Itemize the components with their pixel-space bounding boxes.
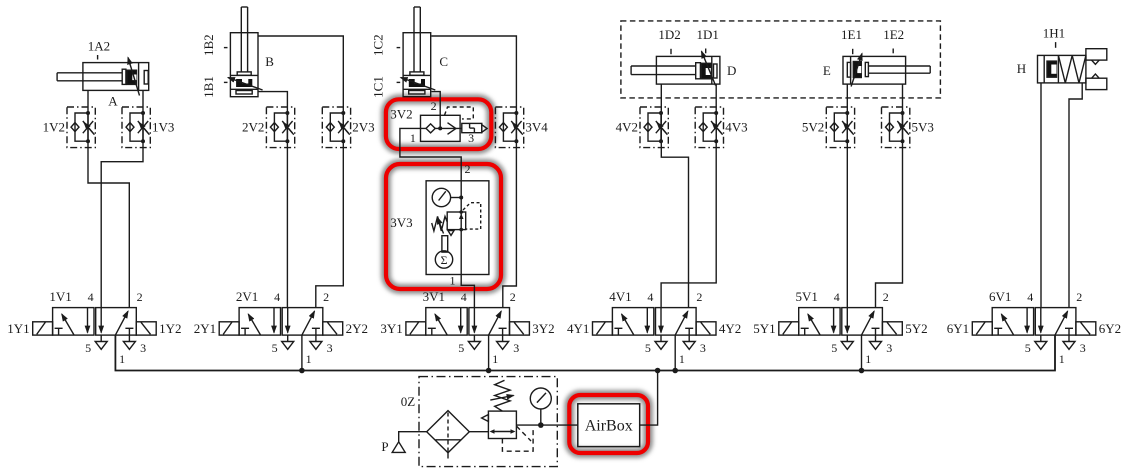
junction dot valve 3 — [486, 368, 492, 374]
svg-text:1C1: 1C1 — [371, 76, 386, 98]
flow control valve 2V3 — [322, 107, 350, 148]
flow control valve 1V2 — [67, 107, 95, 148]
svg-text:H: H — [1017, 61, 1026, 76]
sensor tick 1C1 — [397, 81, 401, 83]
valve 1V1 — [33, 308, 157, 371]
svg-text:6Y2: 6Y2 — [1099, 321, 1121, 336]
svg-text:3: 3 — [140, 341, 146, 355]
cylinder D barrel — [656, 56, 720, 84]
cylinder B piston — [237, 72, 251, 75]
pressure regulator body — [488, 411, 516, 438]
svg-text:4Y1: 4Y1 — [567, 321, 589, 336]
sensor tick 1H1 — [1055, 42, 1057, 48]
wire group3 top: cylinder C to 3V4 to port 2 of 3V1 — [431, 36, 516, 308]
cylinder A piston — [122, 69, 126, 84]
sensor tick 1E2 — [892, 49, 894, 54]
air service unit 0Z — [392, 377, 557, 467]
svg-text:2: 2 — [696, 290, 702, 304]
svg-text:5Y2: 5Y2 — [905, 321, 927, 336]
red highlight around 3V3 — [386, 164, 501, 289]
flow control valve 5V3 — [882, 107, 910, 148]
labels valve 5V1 — [753, 289, 927, 366]
flow control valve 4V3 — [695, 107, 723, 148]
svg-text:1V2: 1V2 — [43, 120, 65, 135]
cylinder A magnet — [127, 70, 137, 84]
cylinder A cushioning adjust arrow — [128, 58, 140, 96]
svg-text:4V3: 4V3 — [725, 120, 747, 135]
svg-text:A: A — [108, 94, 118, 109]
cylinder C piston — [410, 72, 424, 75]
valve 2V1 — [219, 308, 343, 371]
cylinder C barrel — [403, 33, 431, 97]
svg-text:1C2: 1C2 — [371, 34, 386, 56]
wire group1 left: cylinder A cap port to port 2 of 1V1 — [88, 90, 129, 307]
3V3 stem — [442, 236, 448, 252]
svg-text:3: 3 — [513, 341, 519, 355]
regulator relief vent — [482, 415, 489, 422]
svg-text:6Y1: 6Y1 — [947, 321, 969, 336]
svg-text:1: 1 — [450, 274, 456, 288]
3V2 check valve diamond — [426, 124, 435, 133]
svg-text:5Y1: 5Y1 — [753, 321, 775, 336]
3V3 regulator valve body — [447, 212, 466, 230]
sensor tick 1C2 — [397, 47, 401, 49]
svg-text:4: 4 — [88, 290, 94, 304]
wire group3: cylinder C bottom port to 3V2 port 2 — [431, 92, 440, 116]
3V3 pressure gauge — [432, 188, 450, 206]
flow control valve 4V2 — [640, 107, 668, 148]
cylinder D — [631, 49, 720, 86]
3V2 pilot dashed line — [445, 107, 474, 119]
sensor tick 1D2 — [670, 49, 672, 54]
pressure gauge 0Z — [530, 388, 551, 409]
cylinder B cushioning adjust arrow — [228, 78, 263, 91]
cylinder E magnet — [853, 62, 861, 78]
cylinder E piston rod — [868, 65, 930, 67]
svg-text:1H1: 1H1 — [1043, 26, 1065, 41]
svg-text:2: 2 — [510, 290, 516, 304]
svg-text:2: 2 — [431, 99, 437, 113]
3V3 pilot dashed loop — [463, 203, 481, 229]
svg-text:3Y1: 3Y1 — [380, 321, 402, 336]
svg-text:1: 1 — [679, 352, 685, 366]
svg-text:1D2: 1D2 — [658, 27, 680, 42]
wire group6 left: gripper H to port 4 of 6V1 — [1040, 83, 1042, 308]
svg-text:1V3: 1V3 — [152, 120, 174, 135]
wire group3: 3V2 port1 through 3V3 to port 4 of 3V1 — [400, 128, 475, 307]
wire group1 right: cylinder A rod port to port 4 of 1V1 — [101, 90, 143, 307]
svg-text:2: 2 — [883, 290, 889, 304]
gripper H piston magnet — [1047, 61, 1057, 77]
red highlight around AirBox — [569, 395, 648, 453]
svg-text:1: 1 — [1059, 352, 1065, 366]
wire group2 bottom: cylinder B to 2V2 to port 4 of 2V1 — [258, 92, 287, 308]
svg-text:3: 3 — [700, 341, 706, 355]
wire filter to regulator — [469, 431, 488, 433]
labels valve 4V1 — [567, 289, 741, 366]
svg-text:2V2: 2V2 — [242, 120, 264, 135]
svg-text:0Z: 0Z — [401, 394, 416, 409]
svg-text:1: 1 — [492, 352, 498, 366]
svg-text:2Y1: 2Y1 — [194, 321, 216, 336]
airbox riser wire — [640, 371, 658, 426]
svg-text:5: 5 — [645, 341, 651, 355]
3V3 enclosure — [426, 181, 489, 275]
svg-text:1: 1 — [865, 352, 871, 366]
cylinder D cushioning adjust arrow — [702, 51, 716, 85]
cylinder E cushioning adjust arrow — [851, 54, 862, 87]
svg-text:3V1: 3V1 — [423, 289, 445, 304]
flow control valve 3V4 — [495, 107, 523, 148]
cylinder A piston rod — [57, 72, 122, 74]
svg-text:5: 5 — [831, 341, 837, 355]
labels valve 3V1 — [380, 289, 554, 366]
svg-text:1B1: 1B1 — [201, 76, 216, 98]
svg-text:5: 5 — [1025, 341, 1031, 355]
svg-text:2: 2 — [465, 162, 471, 176]
svg-text:4V2: 4V2 — [616, 120, 638, 135]
svg-text:5: 5 — [458, 341, 464, 355]
svg-text:1: 1 — [410, 131, 416, 145]
flow control valve 5V2 — [826, 107, 854, 148]
svg-text:2V3: 2V3 — [352, 120, 374, 135]
svg-text:1B2: 1B2 — [201, 34, 216, 56]
cylinder C magnet — [409, 79, 425, 87]
cylinder C cushioning adjust arrow — [401, 78, 436, 91]
svg-text:1Y2: 1Y2 — [159, 321, 181, 336]
sensor tick 1A2 — [97, 55, 99, 60]
svg-text:2: 2 — [323, 290, 329, 304]
AirBox component — [578, 404, 640, 447]
cylinder B barrel — [230, 33, 258, 97]
cylinder B — [224, 7, 263, 97]
3V2 silencer port 3 — [462, 123, 482, 132]
sensor tick 1E1 — [852, 49, 854, 54]
sensor tick 1B2 — [224, 47, 228, 49]
svg-text:3: 3 — [886, 341, 892, 355]
compressed air source P — [392, 442, 405, 453]
svg-text:C: C — [439, 54, 448, 69]
pressure regulator unit 3V3 — [426, 181, 489, 275]
wire group5 right: cylinder E to 5V3 to port 2 of 5V1 — [876, 84, 903, 308]
svg-text:2: 2 — [1076, 290, 1082, 304]
svg-text:5: 5 — [272, 341, 278, 355]
quick exhaust valve 3V2 — [421, 107, 488, 141]
svg-text:1Y1: 1Y1 — [7, 321, 29, 336]
svg-text:5V1: 5V1 — [796, 289, 818, 304]
cylinder B piston rod — [240, 7, 242, 72]
junction dot valve 5 — [859, 368, 865, 374]
gripper H body — [1038, 55, 1086, 83]
svg-text:2Y2: 2Y2 — [346, 321, 368, 336]
svg-text:4: 4 — [1027, 290, 1033, 304]
svg-text:4: 4 — [834, 290, 840, 304]
labels valve 6V1 — [947, 289, 1121, 366]
cylinder E piston — [865, 62, 868, 76]
3V3 relief vent — [448, 231, 454, 236]
junction dot valve 4 — [672, 368, 678, 374]
cylinder A — [57, 55, 149, 96]
svg-text:6V1: 6V1 — [989, 289, 1011, 304]
wire group5 left: cylinder E to 5V2 to port 4 of 5V1 — [846, 84, 848, 308]
cylinder C — [397, 7, 436, 97]
svg-text:AirBox: AirBox — [585, 418, 633, 435]
svg-text:5V2: 5V2 — [802, 120, 824, 135]
svg-text:1: 1 — [306, 352, 312, 366]
svg-text:2V1: 2V1 — [236, 289, 258, 304]
cylinder A barrel — [83, 63, 149, 91]
svg-text:3: 3 — [327, 341, 333, 355]
svg-text:4: 4 — [647, 290, 653, 304]
gripper H upper jaw — [1086, 49, 1107, 60]
per-valve labels — [7, 289, 1121, 366]
wire group4 right: cylinder D cap side via 4V3 to port 4 of 4V1 — [661, 84, 716, 308]
cylinder E — [843, 49, 930, 87]
cylinder D magnet — [701, 63, 711, 79]
svg-text:5: 5 — [85, 341, 91, 355]
svg-text:4V1: 4V1 — [609, 289, 631, 304]
cylinder E barrel — [843, 56, 906, 84]
3V2 valve body — [421, 115, 461, 141]
3V2 check seat chevron — [448, 123, 456, 135]
red highlight around 3V2 — [386, 99, 491, 149]
svg-text:3V2: 3V2 — [390, 107, 412, 122]
wire group6 right: gripper H to port 2 of 6V1 — [1069, 83, 1082, 308]
3V3 adjustment spring — [432, 216, 448, 231]
sensor tick 1B1 — [224, 81, 228, 83]
svg-text:D: D — [727, 63, 736, 78]
3V2 flow line — [421, 127, 462, 129]
svg-text:1A2: 1A2 — [88, 38, 110, 53]
svg-text:3Y2: 3Y2 — [532, 321, 554, 336]
valve 3V1 — [406, 308, 529, 371]
svg-text:3: 3 — [468, 131, 474, 145]
regulator pilot dashed loop — [502, 427, 533, 451]
gripper H lower jaw — [1086, 78, 1107, 89]
valve 5V1 — [779, 308, 903, 371]
valve 6V1 — [972, 308, 1096, 371]
valve 4V1 — [593, 308, 717, 371]
junction dot valve 2 — [299, 368, 305, 374]
svg-text:5V3: 5V3 — [912, 120, 934, 135]
svg-text:1: 1 — [119, 352, 125, 366]
cylinder B magnet — [236, 79, 252, 87]
3V3 flow sensor — [435, 251, 452, 268]
gripper H return spring — [1058, 55, 1086, 83]
filter with water separator — [427, 411, 470, 453]
svg-text:4: 4 — [274, 290, 280, 304]
svg-text:3V4: 3V4 — [525, 120, 548, 135]
junction dot airbox riser — [655, 368, 661, 374]
sensor tick 1D1 — [705, 49, 707, 54]
svg-text:1E1: 1E1 — [841, 27, 862, 42]
svg-text:B: B — [265, 54, 274, 69]
3V2 port 2 stub — [439, 115, 441, 128]
gripper cylinder H — [1038, 42, 1107, 90]
svg-text:Σ: Σ — [441, 253, 448, 267]
svg-text:1V1: 1V1 — [49, 289, 71, 304]
svg-text:1E2: 1E2 — [883, 27, 904, 42]
3V2 junction node — [438, 126, 442, 130]
cylinder D piston — [696, 63, 701, 79]
svg-text:4: 4 — [461, 290, 467, 304]
0Z dash-dot enclosure — [419, 377, 557, 467]
svg-text:3V3: 3V3 — [390, 215, 412, 230]
cylinder D piston rod — [631, 65, 696, 67]
flow control valve 2V2 — [266, 107, 294, 148]
wire group4 left: cylinder D rod side via 4V2 to port 2 of 4V1 — [661, 84, 688, 308]
svg-text:2: 2 — [137, 290, 143, 304]
regulator adjustment spring — [495, 380, 510, 411]
svg-text:1D1: 1D1 — [697, 27, 719, 42]
dashed box around cylinders D and E — [621, 21, 941, 98]
labels valve 1V1 — [7, 289, 181, 366]
svg-text:3: 3 — [1080, 341, 1086, 355]
main supply line — [115, 335, 1055, 370]
flow control valve 1V3 — [122, 107, 150, 148]
svg-text:P: P — [381, 439, 388, 454]
svg-text:E: E — [823, 63, 831, 78]
svg-text:4Y2: 4Y2 — [719, 321, 741, 336]
labels valve 2V1 — [194, 289, 368, 366]
cylinder C piston rod — [413, 7, 415, 72]
wire P to filter — [399, 432, 427, 442]
airbox input wire from 0Z — [516, 424, 577, 426]
wire group2 top: cylinder B to 2V3 to port 2 of 2V1 — [258, 36, 343, 308]
